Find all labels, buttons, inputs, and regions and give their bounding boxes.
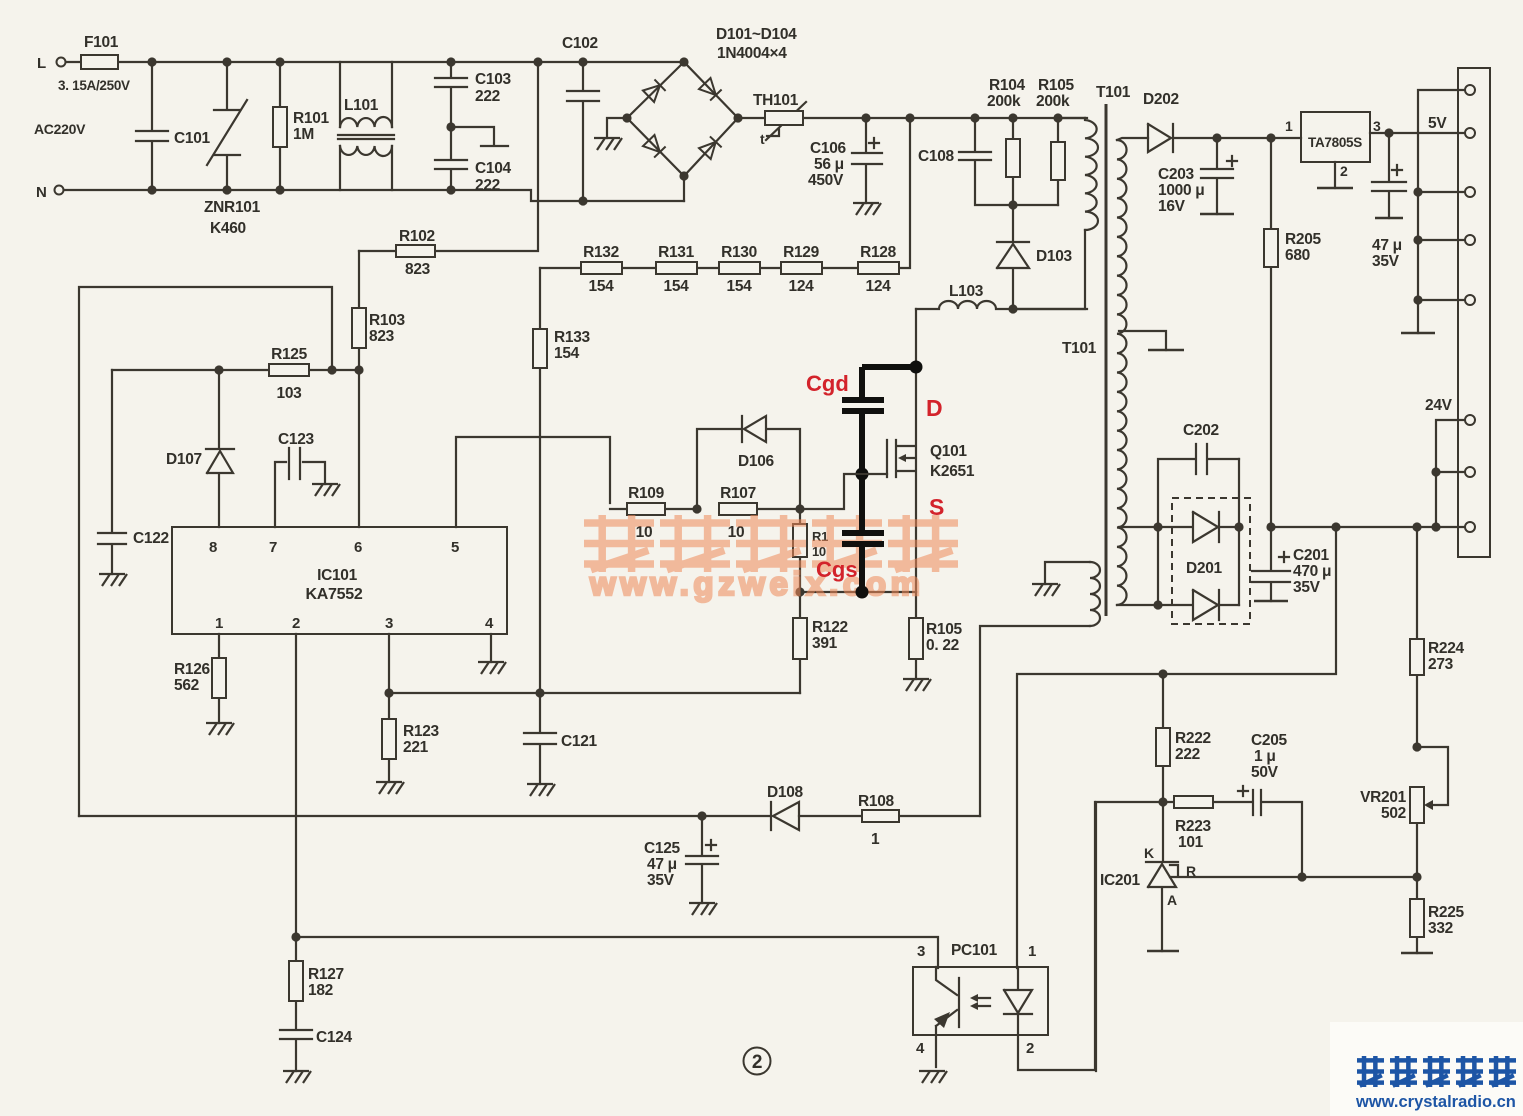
svg-text:823: 823 [369, 328, 395, 345]
svg-text:200k: 200k [987, 93, 1021, 110]
svg-text:D202: D202 [1143, 91, 1179, 108]
svg-text:1 μ: 1 μ [1254, 748, 1276, 765]
svg-text:450V: 450V [808, 172, 844, 189]
svg-text:L101: L101 [344, 97, 379, 114]
svg-text:R225: R225 [1428, 904, 1465, 921]
svg-text:0. 22: 0. 22 [926, 637, 959, 654]
svg-text:ZNR101: ZNR101 [204, 199, 261, 216]
svg-text:KA7552: KA7552 [306, 586, 363, 603]
svg-text:R224: R224 [1428, 640, 1465, 657]
svg-text:R125: R125 [271, 346, 308, 363]
svg-text:AC220V: AC220V [34, 121, 86, 137]
svg-text:R108: R108 [858, 793, 895, 810]
svg-text:103: 103 [277, 385, 303, 402]
svg-text:4: 4 [916, 1040, 925, 1057]
svg-text:R223: R223 [1175, 818, 1212, 835]
svg-text:L103: L103 [949, 283, 984, 300]
svg-text:K: K [1144, 845, 1154, 861]
svg-text:2: 2 [752, 1052, 762, 1073]
svg-text:PC101: PC101 [951, 942, 998, 959]
svg-text:1000 μ: 1000 μ [1158, 182, 1204, 199]
svg-text:222: 222 [475, 88, 500, 105]
svg-text:C102: C102 [562, 35, 598, 52]
svg-text:D201: D201 [1186, 560, 1223, 577]
svg-text:6: 6 [354, 539, 362, 556]
svg-text:C123: C123 [278, 431, 315, 448]
svg-text:1M: 1M [293, 126, 314, 143]
svg-text:R128: R128 [860, 244, 897, 261]
svg-text:200k: 200k [1036, 93, 1070, 110]
svg-text:L: L [37, 55, 46, 72]
svg-text:R123: R123 [403, 723, 440, 740]
svg-text:D106: D106 [738, 453, 775, 470]
svg-text:154: 154 [727, 278, 753, 295]
svg-text:3: 3 [1373, 118, 1381, 134]
svg-text:7: 7 [269, 539, 277, 556]
svg-text:47 μ: 47 μ [647, 856, 677, 873]
svg-text:16V: 16V [1158, 198, 1186, 215]
svg-text:1N4004×4: 1N4004×4 [717, 45, 787, 62]
svg-text:35V: 35V [1372, 253, 1400, 270]
svg-text:C202: C202 [1183, 422, 1219, 439]
svg-text:R127: R127 [308, 966, 344, 983]
svg-text:562: 562 [174, 677, 199, 694]
svg-text:35V: 35V [647, 872, 675, 889]
svg-text:124: 124 [866, 278, 892, 295]
svg-text:4: 4 [485, 615, 494, 632]
svg-text:24V: 24V [1425, 397, 1453, 414]
svg-text:T101: T101 [1096, 84, 1131, 101]
svg-text:182: 182 [308, 982, 333, 999]
svg-text:VR201: VR201 [1360, 789, 1407, 806]
svg-text:470 μ: 470 μ [1293, 563, 1331, 580]
svg-text:502: 502 [1381, 805, 1406, 822]
svg-text:R122: R122 [812, 619, 848, 636]
svg-text:R102: R102 [399, 228, 435, 245]
svg-text:2: 2 [292, 615, 300, 632]
svg-text:56 μ: 56 μ [814, 156, 844, 173]
svg-text:332: 332 [1428, 920, 1453, 937]
svg-text:680: 680 [1285, 247, 1310, 264]
svg-text:R107: R107 [720, 485, 756, 502]
svg-text:222: 222 [475, 177, 500, 194]
svg-text:35V: 35V [1293, 579, 1321, 596]
svg-text:IC201: IC201 [1100, 872, 1141, 889]
svg-text:Cgd: Cgd [806, 371, 849, 396]
svg-text:A: A [1167, 892, 1177, 908]
svg-text:R104: R104 [989, 77, 1026, 94]
svg-text:N: N [36, 184, 47, 201]
svg-text:823: 823 [405, 261, 431, 278]
svg-text:Q101: Q101 [930, 443, 967, 460]
svg-text:221: 221 [403, 739, 429, 756]
svg-text:1: 1 [215, 615, 223, 632]
svg-text:t: t [760, 131, 765, 147]
svg-text:D103: D103 [1036, 248, 1073, 265]
svg-text:S: S [929, 494, 944, 520]
svg-text:D108: D108 [767, 784, 804, 801]
svg-text:C124: C124 [316, 1029, 353, 1046]
svg-text:2: 2 [1026, 1040, 1034, 1057]
svg-text:R126: R126 [174, 661, 211, 678]
svg-text:C122: C122 [133, 530, 169, 547]
svg-text:R205: R205 [1285, 231, 1322, 248]
svg-text:R130: R130 [721, 244, 757, 261]
svg-text:K2651: K2651 [930, 463, 975, 480]
svg-text:1: 1 [1028, 943, 1036, 960]
svg-text:C201: C201 [1293, 547, 1330, 564]
svg-text:2: 2 [1340, 163, 1348, 179]
svg-text:154: 154 [589, 278, 615, 295]
svg-text:C203: C203 [1158, 166, 1195, 183]
svg-text:47 μ: 47 μ [1372, 237, 1402, 254]
svg-text:R109: R109 [628, 485, 665, 502]
svg-text:D101~D104: D101~D104 [716, 26, 797, 43]
svg-text:222: 222 [1175, 746, 1200, 763]
svg-text:154: 154 [664, 278, 690, 295]
svg-text:391: 391 [812, 635, 838, 652]
svg-text:101: 101 [1178, 834, 1204, 851]
svg-text:R133: R133 [554, 329, 591, 346]
svg-text:D107: D107 [166, 451, 202, 468]
svg-text:D: D [926, 395, 943, 421]
svg-text:R222: R222 [1175, 730, 1211, 747]
svg-text:T101: T101 [1062, 340, 1097, 357]
svg-text:R105: R105 [1038, 77, 1075, 94]
svg-text:R129: R129 [783, 244, 820, 261]
svg-text:R131: R131 [658, 244, 695, 261]
svg-text:R105: R105 [926, 621, 963, 638]
svg-text:3: 3 [385, 615, 393, 632]
svg-text:R132: R132 [583, 244, 619, 261]
svg-text:5V: 5V [1428, 115, 1447, 132]
svg-text:C108: C108 [918, 148, 955, 165]
svg-text:Cgs: Cgs [816, 557, 858, 582]
svg-text:www.crystalradio.cn: www.crystalradio.cn [1355, 1093, 1516, 1111]
svg-text:R103: R103 [369, 312, 406, 329]
svg-text:8: 8 [209, 539, 217, 556]
svg-text:TA7805S: TA7805S [1308, 135, 1362, 150]
svg-text:R101: R101 [293, 110, 330, 127]
svg-text:1: 1 [871, 831, 880, 848]
svg-text:C121: C121 [561, 733, 598, 750]
svg-text:F101: F101 [84, 34, 119, 51]
svg-text:3. 15A/250V: 3. 15A/250V [58, 78, 130, 93]
svg-text:C205: C205 [1251, 732, 1288, 749]
svg-text:154: 154 [554, 345, 580, 362]
svg-text:C101: C101 [174, 130, 211, 147]
svg-text:50V: 50V [1251, 764, 1279, 781]
svg-text:R: R [1186, 863, 1196, 879]
svg-text:1: 1 [1285, 118, 1293, 134]
svg-text:www.gzweix.com: www.gzweix.com [589, 565, 925, 602]
svg-text:273: 273 [1428, 656, 1454, 673]
svg-text:124: 124 [789, 278, 815, 295]
svg-text:IC101: IC101 [317, 567, 358, 584]
svg-text:C104: C104 [475, 160, 512, 177]
svg-text:C103: C103 [475, 71, 512, 88]
svg-text:5: 5 [451, 539, 459, 556]
svg-text:TH101: TH101 [753, 92, 799, 109]
svg-text:C106: C106 [810, 140, 847, 157]
svg-text:3: 3 [917, 943, 925, 960]
svg-text:C125: C125 [644, 840, 681, 857]
svg-text:K460: K460 [210, 220, 246, 237]
